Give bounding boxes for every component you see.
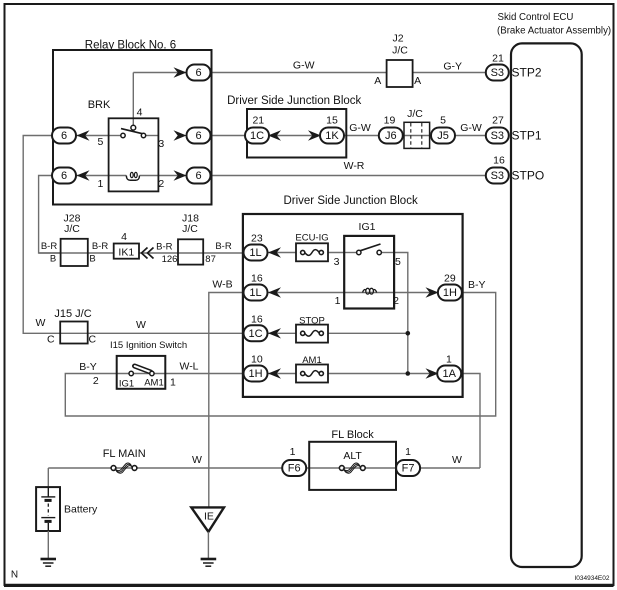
- relay pin1 label: [97, 178, 103, 190]
- svg-text:IG1: IG1: [359, 221, 376, 233]
- svg-text:IE: IE: [204, 511, 214, 523]
- IG1 coil: [363, 288, 377, 294]
- IG1 pin 2 label: [393, 295, 399, 307]
- connector 1H pin 10: [251, 354, 263, 366]
- relay BRK contact left: [121, 133, 125, 137]
- fusible link FL MAIN: [111, 463, 137, 473]
- label W bottom right: [452, 454, 462, 466]
- connector J5 pin 5: [440, 115, 446, 127]
- junction J/C dashed box: [404, 122, 430, 148]
- svg-text:B: B: [50, 254, 56, 265]
- svg-text:J/C: J/C: [392, 45, 408, 57]
- J2 label: [392, 33, 408, 57]
- connector F7 pin 1: [405, 446, 411, 458]
- lower junction block title: [283, 195, 417, 207]
- svg-text:6: 6: [195, 130, 201, 142]
- label B-Y right: [468, 279, 486, 291]
- label FL MAIN: [103, 448, 146, 460]
- arrow into left 6 coil row: [77, 170, 90, 180]
- svg-text:B-R: B-R: [156, 242, 173, 253]
- svg-text:STP2: STP2: [512, 66, 542, 80]
- label W-B: [212, 279, 232, 291]
- svg-text:1A: 1A: [442, 368, 456, 380]
- svg-text:1: 1: [335, 295, 341, 307]
- connector F6 pin 1: [290, 446, 296, 458]
- svg-text:J15 J/C: J15 J/C: [54, 308, 91, 320]
- relay pin3 label: [158, 138, 164, 150]
- svg-text:Skid Control ECU: Skid Control ECU: [498, 12, 574, 23]
- J15 pin C left: [47, 334, 55, 346]
- arrow into 1K: [308, 130, 321, 140]
- connector 1C row C: [244, 325, 268, 341]
- svg-text:Battery: Battery: [64, 504, 98, 516]
- connector J6 pin 19: [384, 115, 396, 127]
- svg-text:6: 6: [61, 130, 67, 142]
- connector 1C pin 16: [251, 313, 263, 325]
- arrow into 1H29: [426, 287, 439, 297]
- fusible link ALT: [339, 463, 365, 473]
- wire ECU-IG row A: [268, 252, 395, 254]
- junction J15 box: [60, 322, 87, 344]
- J2 pin A right: [414, 75, 421, 87]
- label B left of J28: [50, 254, 56, 265]
- svg-text:10: 10: [251, 354, 263, 366]
- arrow into top-right 6: [174, 67, 187, 77]
- svg-text:A: A: [374, 75, 381, 87]
- svg-text:S3: S3: [491, 170, 504, 182]
- IG1 pin 5 label: [395, 256, 401, 268]
- svg-text:21: 21: [492, 53, 504, 65]
- wire coil row inside relay: [53, 175, 212, 177]
- relay block No. 6 title: [85, 40, 176, 52]
- relay BRK label: [88, 99, 111, 111]
- connector 1H row B: [438, 285, 462, 301]
- wire battery riser: [47, 468, 49, 487]
- connector 1K pin 15: [326, 115, 338, 127]
- svg-text:FL MAIN: FL MAIN: [103, 448, 146, 460]
- svg-text:W-L: W-L: [179, 361, 198, 373]
- I15 IG1 label: [119, 379, 134, 390]
- IG1 contact left: [357, 250, 361, 254]
- svg-text:2: 2: [158, 178, 164, 190]
- FL block title: [331, 429, 374, 441]
- I15 Ignition Switch label: [110, 340, 187, 351]
- IG1 switch title: [359, 221, 376, 233]
- svg-text:I15 Ignition Switch: I15 Ignition Switch: [110, 340, 187, 351]
- arrow into 1H row D: [268, 368, 281, 378]
- connector 1H row D: [244, 366, 268, 382]
- wire 1K to J6 to J5 to S3 STP1: [343, 135, 487, 137]
- svg-text:2: 2: [393, 295, 399, 307]
- svg-text:27: 27: [492, 115, 504, 127]
- junction J2 box: [387, 60, 413, 87]
- wire G-W row1 relay to J2 to STP2 S3: [133, 72, 488, 74]
- battery label: [64, 504, 98, 516]
- svg-text:FL Block: FL Block: [331, 429, 374, 441]
- wire B-Y 1H29 loop to I15: [65, 293, 495, 417]
- wire riser BRK pin4: [132, 73, 134, 126]
- lower junction block box: [243, 214, 463, 397]
- connector S3 STP2 pin 21: [486, 53, 509, 81]
- connector 6 left coil row: [52, 168, 76, 184]
- arrow into right 6 row2: [174, 130, 187, 140]
- svg-text:1: 1: [290, 446, 296, 458]
- arrow into 1A: [426, 368, 439, 378]
- svg-text:1H: 1H: [443, 287, 457, 299]
- svg-text:ECU-IG: ECU-IG: [295, 232, 328, 243]
- connector F6: [282, 460, 306, 476]
- label B-R right of J28: [92, 241, 109, 252]
- label G-Y row1: [443, 61, 462, 73]
- battery plates: [41, 487, 55, 531]
- label B right of J28: [89, 254, 95, 265]
- IG1 switch box: [344, 236, 394, 309]
- I15 contact IG1: [129, 371, 133, 375]
- svg-text:ALT: ALT: [343, 450, 362, 462]
- label G-W before S3: [460, 122, 482, 134]
- svg-text:3: 3: [334, 256, 340, 268]
- svg-text:AM1: AM1: [144, 378, 164, 389]
- svg-text:1: 1: [170, 377, 176, 389]
- J18 label: [182, 213, 199, 236]
- connector 1A pin 1: [446, 354, 452, 366]
- label B-R before 1L: [215, 241, 232, 252]
- I15 AM1 label: [144, 378, 164, 389]
- svg-text:I034934E02: I034934E02: [574, 575, 609, 582]
- svg-text:1C: 1C: [248, 328, 262, 340]
- svg-text:4: 4: [121, 231, 127, 243]
- svg-text:16: 16: [251, 313, 263, 325]
- relay BRK contact right: [141, 133, 145, 137]
- junction J28 box: [61, 239, 88, 266]
- arrow into 1C row C: [268, 328, 281, 338]
- svg-text:J/C: J/C: [407, 108, 423, 120]
- wire W-R STPO row: [212, 175, 488, 177]
- connector J5: [431, 128, 455, 144]
- connector F7: [396, 460, 420, 476]
- arrow into left 6 row2: [77, 130, 90, 140]
- arrow into 1C: [268, 130, 281, 140]
- wire coil row left to J28: [39, 176, 61, 254]
- fuse STOP box: [296, 325, 328, 343]
- connector 1L pin 23: [251, 233, 263, 245]
- connector 1L row A: [244, 245, 268, 261]
- svg-text:B-R: B-R: [41, 241, 58, 252]
- connector 1H pin 29: [444, 273, 456, 285]
- svg-text:1L: 1L: [249, 287, 261, 299]
- svg-text:21: 21: [252, 115, 264, 127]
- wire battery to ground: [47, 531, 49, 559]
- svg-text:F6: F6: [288, 463, 301, 475]
- diagram letter N: [11, 570, 18, 581]
- junction J/C dashed label: [407, 108, 423, 120]
- svg-text:6: 6: [195, 67, 201, 79]
- svg-text:5: 5: [97, 136, 103, 148]
- relay IK1 box: [114, 244, 139, 259]
- svg-text:6: 6: [61, 170, 67, 182]
- wire row2 inside relay: [53, 135, 158, 137]
- wire inside FL block: [309, 467, 396, 469]
- svg-text:1: 1: [446, 354, 452, 366]
- svg-text:B-R: B-R: [92, 241, 109, 252]
- upper junction block title: [227, 95, 361, 107]
- svg-text:G-W: G-W: [349, 122, 371, 134]
- svg-text:F7: F7: [402, 463, 415, 475]
- svg-text:W: W: [136, 319, 146, 331]
- svg-text:4: 4: [137, 107, 143, 119]
- connector 1A: [437, 366, 461, 382]
- svg-text:G-W: G-W: [460, 122, 482, 134]
- chevrons toward IK1: [142, 248, 154, 259]
- J15 J/C label: [54, 308, 91, 320]
- relay block No. 6 box: [53, 50, 212, 205]
- svg-text:1K: 1K: [325, 130, 339, 142]
- svg-text:J6: J6: [385, 130, 397, 142]
- connector 1K: [320, 128, 344, 144]
- IG1 contact right: [377, 250, 381, 254]
- Skid Control ECU label: [497, 12, 611, 37]
- label B-Y left: [79, 361, 97, 373]
- label STP1: [512, 129, 542, 143]
- fuse AM1 box: [296, 365, 328, 383]
- svg-text:5: 5: [440, 115, 446, 127]
- label W bottom left: [192, 454, 202, 466]
- svg-text:16: 16: [493, 155, 505, 167]
- wire B-R IK1 to J18 to 1L: [139, 252, 246, 254]
- relay BRK coil: [126, 172, 139, 180]
- connector 1C pin 21: [252, 115, 264, 127]
- svg-text:6: 6: [195, 170, 201, 182]
- I15 pin 2 label: [93, 375, 99, 387]
- svg-text:STP1: STP1: [512, 129, 542, 143]
- label G-W after 1K: [349, 122, 371, 134]
- svg-text:19: 19: [384, 115, 396, 127]
- fuse STOP label: [299, 316, 325, 327]
- connector 6 right row2: [187, 128, 211, 144]
- ground IE: [201, 559, 217, 566]
- svg-text:29: 29: [444, 273, 456, 285]
- svg-text:W: W: [36, 317, 46, 329]
- I15 pin 1 label: [170, 377, 176, 389]
- label G-W row1: [293, 59, 315, 71]
- svg-text:S3: S3: [491, 67, 504, 79]
- svg-text:J5: J5: [437, 130, 449, 142]
- arrow into 1L row B: [268, 287, 281, 297]
- relay pin2 label: [158, 178, 164, 190]
- svg-text:1: 1: [405, 446, 411, 458]
- connector 6 top right: [187, 65, 211, 81]
- relay pin5 label: [97, 136, 103, 148]
- svg-text:N: N: [11, 570, 18, 581]
- wire AM1 row D: [268, 373, 439, 375]
- label W-L: [179, 361, 198, 373]
- svg-text:2: 2: [93, 375, 99, 387]
- I15 switch box: [117, 356, 166, 389]
- svg-text:1: 1: [97, 178, 103, 190]
- svg-text:STPO: STPO: [512, 169, 545, 183]
- I15 contact AM1: [150, 371, 154, 375]
- svg-text:23: 23: [251, 233, 263, 245]
- fuse ALT label: [343, 450, 362, 462]
- connector 6 left row2: [52, 128, 76, 144]
- svg-text:5: 5: [395, 256, 401, 268]
- svg-text:87: 87: [205, 254, 216, 265]
- wire W-L I15 to 1H10: [117, 373, 246, 375]
- wire row2 left to J15 riser: [23, 136, 246, 334]
- wire IG1 pin5 riser: [394, 253, 408, 374]
- arrow into right 6 coil row: [174, 170, 187, 180]
- wire row B coil to 1H29: [268, 292, 439, 294]
- label W-R: [344, 160, 365, 172]
- IK1 pin 4 label: [121, 231, 127, 243]
- svg-text:16: 16: [251, 273, 263, 285]
- svg-text:B-Y: B-Y: [79, 361, 97, 373]
- wire STOP row C: [268, 332, 408, 334]
- svg-text:C: C: [47, 334, 55, 346]
- wire 1A to W row: [460, 374, 480, 469]
- relay BRK pin 4 label: [137, 107, 143, 119]
- svg-text:BRK: BRK: [88, 99, 111, 111]
- svg-text:1H: 1H: [248, 368, 262, 380]
- svg-text:B-Y: B-Y: [468, 279, 486, 291]
- svg-text:J/C: J/C: [64, 223, 80, 235]
- wire G-Y row2 relay to 1C: [212, 135, 247, 137]
- diagram id I034934E02: [574, 575, 609, 582]
- label STPO: [512, 169, 545, 183]
- label B-R IK1-J18: [156, 242, 173, 253]
- svg-text:IG1: IG1: [119, 379, 134, 390]
- J18 pin 126 label: [162, 254, 178, 265]
- connector 1L row B: [244, 285, 268, 301]
- svg-text:15: 15: [326, 115, 338, 127]
- connector S3 STPO pin 16: [486, 155, 509, 184]
- svg-text:IK1: IK1: [118, 247, 134, 259]
- fuse AM1 label: [302, 355, 322, 366]
- relay BRK box: [109, 118, 159, 191]
- junction J18 box: [178, 239, 203, 264]
- svg-text:C: C: [89, 334, 97, 346]
- connector 1L pin 16: [251, 273, 263, 285]
- svg-text:1L: 1L: [249, 247, 261, 259]
- connector J6: [379, 128, 403, 144]
- arrow into 1L row A: [268, 247, 281, 257]
- svg-text:Driver Side Junction Block: Driver Side Junction Block: [227, 95, 361, 107]
- label W right of J15: [136, 319, 146, 331]
- wire IE to ground: [207, 532, 209, 559]
- J15 pin C right: [89, 334, 97, 346]
- svg-text:(Brake Actuator Assembly): (Brake Actuator Assembly): [497, 26, 611, 37]
- junction dot row C: [406, 331, 411, 336]
- svg-text:W-B: W-B: [212, 279, 232, 291]
- J18 pin 87 label: [205, 254, 216, 265]
- wire W-B 1L16 to IE ground: [209, 293, 246, 508]
- Skid Control ECU body: [511, 43, 582, 567]
- svg-text:J2: J2: [392, 33, 403, 45]
- label STP2: [512, 66, 542, 80]
- svg-text:G-Y: G-Y: [443, 61, 462, 73]
- svg-text:J/C: J/C: [182, 223, 198, 235]
- IG1 blade: [360, 244, 381, 251]
- label B-R left of J28: [41, 241, 58, 252]
- fuse ECU-IG box: [296, 243, 328, 261]
- wire row2 upper block 1C-1K: [268, 135, 322, 137]
- fuse ECU-IG label: [295, 232, 328, 243]
- IG1 pin 3 label: [334, 256, 340, 268]
- connector 6 right coil row: [187, 168, 211, 184]
- J28 label: [64, 213, 81, 236]
- battery box: [36, 487, 60, 531]
- junction dot row D: [406, 371, 411, 376]
- J2 pin A left: [374, 75, 381, 87]
- wire W bottom row: [48, 467, 480, 469]
- ground point IE triangle: [191, 507, 224, 531]
- IG1 pin 1 label: [335, 295, 341, 307]
- svg-text:126: 126: [162, 254, 178, 265]
- svg-text:S3: S3: [491, 130, 504, 142]
- svg-text:W-R: W-R: [344, 160, 365, 172]
- ground battery: [41, 559, 57, 566]
- svg-text:G-W: G-W: [293, 59, 315, 71]
- svg-text:Driver Side Junction Block: Driver Side Junction Block: [283, 195, 417, 207]
- connector S3 STP1 pin 27: [486, 115, 509, 144]
- connector 1C: [245, 128, 269, 144]
- svg-text:B: B: [89, 254, 95, 265]
- svg-text:B-R: B-R: [215, 241, 232, 252]
- svg-text:W: W: [192, 454, 202, 466]
- relay BRK pivot contact: [131, 125, 136, 130]
- wire B-R J28 to IK1: [39, 252, 114, 254]
- svg-text:W: W: [452, 454, 462, 466]
- svg-text:1C: 1C: [250, 130, 264, 142]
- I15 lever: [135, 366, 151, 372]
- label W left: [36, 317, 46, 329]
- upper junction block box: [247, 109, 346, 158]
- relay BRK blade: [121, 129, 145, 135]
- FL block box: [309, 442, 396, 490]
- svg-text:3: 3: [158, 138, 164, 150]
- svg-text:A: A: [414, 75, 421, 87]
